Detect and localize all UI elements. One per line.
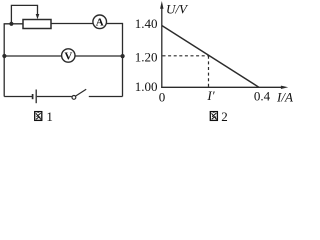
ammeter A bbox=[93, 15, 107, 29]
svg-text:V: V bbox=[64, 50, 72, 62]
wire top left segment bbox=[4, 23, 23, 25]
svg-text:0: 0 bbox=[159, 90, 166, 105]
wire right vertical bbox=[122, 23, 124, 97]
switch S pivot bbox=[72, 96, 76, 100]
svg-text:0.4: 0.4 bbox=[254, 89, 271, 104]
caption 图1 glyph bbox=[35, 112, 42, 121]
node junction dot left-middle bbox=[2, 54, 6, 58]
svg-text:1.20: 1.20 bbox=[135, 49, 158, 64]
svg-text:A: A bbox=[96, 17, 104, 29]
switch S blade bbox=[76, 89, 87, 96]
wire switch to bottom-right corner bbox=[89, 96, 123, 98]
wire left vertical bbox=[3, 24, 5, 97]
wire bottom left segment bbox=[4, 96, 32, 98]
dashed line horizontal at U=1.20 bbox=[163, 55, 209, 57]
wire voltmeter to right vertical bbox=[75, 55, 123, 57]
svg-text:I′: I′ bbox=[206, 88, 214, 103]
y-axis U bbox=[161, 7, 163, 88]
svg-text:U/V: U/V bbox=[166, 2, 189, 17]
resistor R (rheostat body) bbox=[23, 20, 51, 29]
svg-text:1.00: 1.00 bbox=[135, 79, 158, 94]
node junction dot right-middle bbox=[121, 54, 125, 58]
x-axis I bbox=[161, 86, 281, 88]
plot line U vs I bbox=[162, 26, 259, 88]
wire slider tap loop bbox=[11, 5, 37, 23]
wire ammeter to top-right corner bbox=[107, 23, 123, 25]
wire middle left segment bbox=[4, 55, 62, 57]
svg-text:1.40: 1.40 bbox=[135, 16, 158, 31]
caption 图2 glyph bbox=[210, 112, 217, 121]
wire battery to switch bbox=[37, 96, 72, 98]
y-axis arrowhead bbox=[160, 1, 163, 9]
node junction dot left-top bbox=[9, 22, 13, 26]
svg-text:2: 2 bbox=[221, 109, 228, 123]
svg-text:1: 1 bbox=[46, 109, 53, 123]
dashed line vertical at I' bbox=[208, 56, 210, 87]
wire rheostat to ammeter bbox=[51, 23, 93, 25]
slider arrowhead bbox=[36, 14, 40, 19]
voltmeter V bbox=[62, 49, 75, 62]
battery cell bbox=[32, 94, 34, 99]
svg-text:I/A: I/A bbox=[276, 90, 293, 105]
x-axis arrowhead bbox=[281, 86, 288, 89]
